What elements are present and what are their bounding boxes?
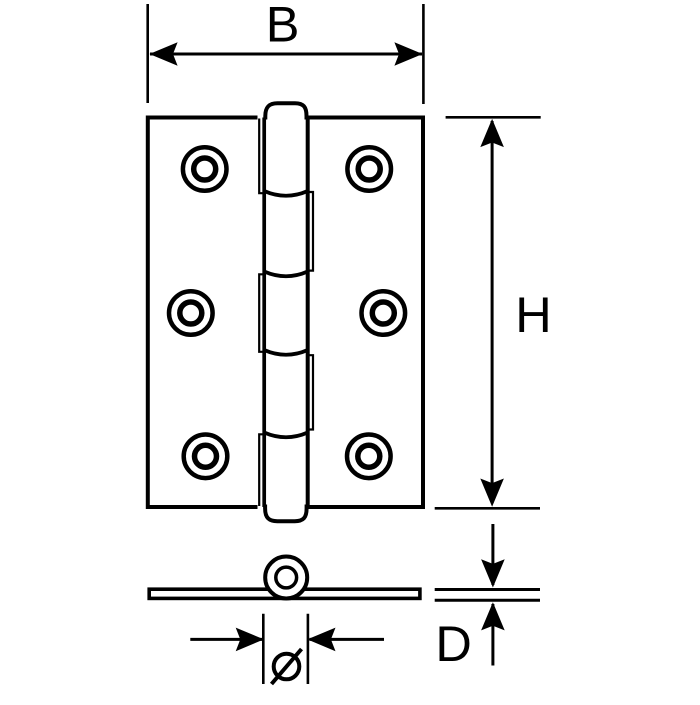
hidden leaf edge knuckle 1 (left) xyxy=(259,119,264,194)
knuckle joint arc 2 xyxy=(264,272,308,277)
svg-text:D: D xyxy=(435,615,471,672)
dimension diameter extension line left xyxy=(262,614,265,684)
hidden leaf edge knuckle 2 (right) xyxy=(308,192,313,271)
side view pivot barrel outer xyxy=(265,557,307,599)
side view pivot pin inner xyxy=(276,567,297,588)
hidden leaf edge knuckle 3 (left) xyxy=(259,274,264,352)
screw hole bottom-right outer xyxy=(347,435,391,479)
screw hole top-left inner xyxy=(194,158,216,180)
screw hole top-right outer xyxy=(347,147,391,191)
dimension H arrowhead top xyxy=(480,119,504,147)
dimension H arrowhead bottom xyxy=(480,479,504,507)
knuckle joint arc 4 xyxy=(264,433,308,438)
screw hole mid-right inner xyxy=(372,302,394,324)
barrel right edge xyxy=(306,118,310,508)
barrel left edge xyxy=(262,118,266,508)
dimension diameter extension line right xyxy=(307,614,310,684)
pin top cap xyxy=(265,103,306,119)
dimension H line xyxy=(491,121,494,503)
hidden leaf edge knuckle 4 (right) xyxy=(308,355,313,429)
screw hole mid-left outer xyxy=(169,291,213,335)
knuckle joint arc 3 xyxy=(264,350,308,355)
screw hole mid-left inner xyxy=(180,302,202,324)
dimension B line xyxy=(150,53,422,56)
dimension H extension line top xyxy=(446,116,541,119)
dimension diameter line right xyxy=(310,638,385,641)
screw hole bottom-left inner xyxy=(195,445,217,467)
svg-text:B: B xyxy=(266,0,300,53)
dimension D leaf extension line bottom xyxy=(435,599,540,602)
dimension H extension line bottom xyxy=(435,507,540,510)
knuckle joint arc 1 xyxy=(264,191,308,196)
side view leaf bar xyxy=(149,589,420,598)
dimension diameter line left xyxy=(190,638,262,641)
screw hole top-right inner xyxy=(358,158,380,180)
dimension D upper arrow line xyxy=(491,524,494,585)
label diameter slash xyxy=(272,649,302,684)
hidden leaf edge knuckle 5 (left) xyxy=(259,434,264,506)
screw hole bottom-right inner xyxy=(358,445,380,467)
pin bottom cap xyxy=(265,505,307,522)
dimension D lower arrowhead (up) xyxy=(481,602,505,630)
screw hole top-left outer xyxy=(183,147,227,191)
label diameter circle xyxy=(274,654,300,680)
leaf right outline xyxy=(307,118,423,508)
leaf left outline xyxy=(148,118,258,508)
dimension diameter arrowhead left (points right) xyxy=(236,628,264,652)
dimension B extension line right xyxy=(422,4,425,104)
screw hole bottom-left outer xyxy=(184,435,228,479)
svg-text:H: H xyxy=(515,286,551,343)
dimension D upper arrowhead (down) xyxy=(481,559,505,587)
dimension B arrowhead left xyxy=(149,42,177,66)
dimension D lower arrow line xyxy=(491,604,494,666)
dimension B arrowhead right xyxy=(394,42,422,66)
dimension B extension line left xyxy=(146,4,149,103)
dimension D leaf extension line top xyxy=(435,588,540,591)
dimension diameter arrowhead right (points left) xyxy=(307,628,335,652)
screw hole mid-right outer xyxy=(362,291,406,335)
